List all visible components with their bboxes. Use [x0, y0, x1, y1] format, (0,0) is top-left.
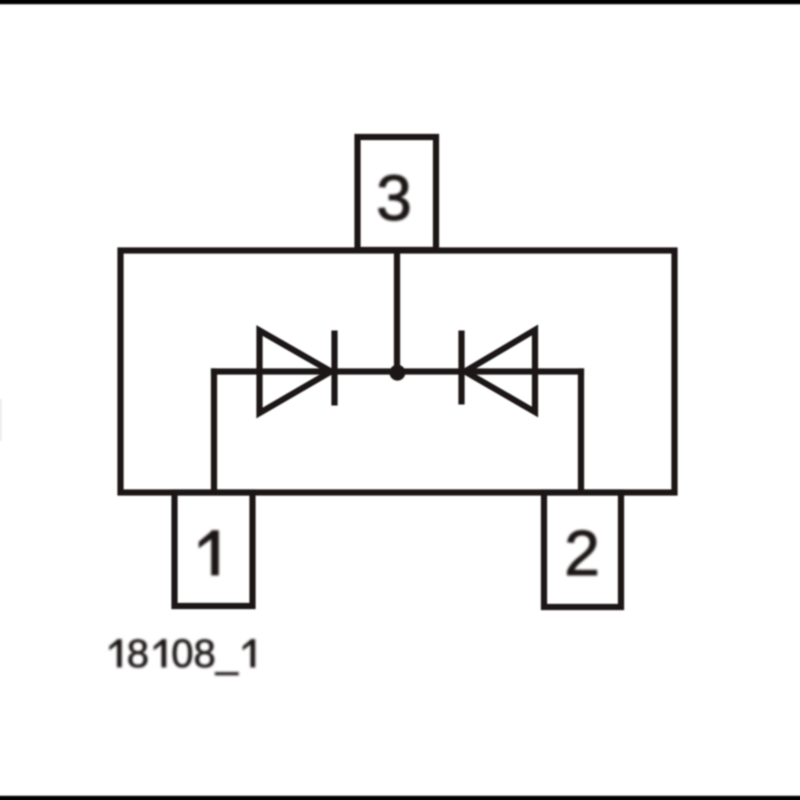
figure id 18108_1: [127, 632, 239, 676]
svg-text:8: 8: [127, 632, 149, 676]
svg-text:3: 3: [376, 162, 412, 234]
svg-text:_: _: [215, 632, 239, 676]
diode D2 cathode bar: [458, 331, 464, 405]
svg-text:08: 08: [171, 632, 216, 676]
pin 2 box: [544, 493, 621, 608]
pin 3 box: [358, 137, 437, 250]
wire pin3 to junction: [394, 250, 400, 372]
wire bus to pin 2: [578, 368, 584, 492]
pin 1 box: [175, 493, 253, 607]
package outline: [121, 251, 675, 493]
diode D1 cathode bar: [331, 331, 337, 406]
svg-text:2: 2: [564, 517, 600, 589]
wire bus to pin 1: [211, 368, 217, 492]
wire anode bus horizontal: [211, 368, 584, 374]
pin 1 label (helvetica-style "1": flag + stem, no foot): [199, 530, 219, 575]
top black bar: [0, 0, 800, 4]
left edge smudge: [0, 399, 2, 441]
diode D1 triangle: [260, 331, 332, 414]
bottom black bar: [0, 796, 800, 800]
diode D2 triangle: [465, 330, 535, 412]
junction node dot: [389, 365, 405, 381]
